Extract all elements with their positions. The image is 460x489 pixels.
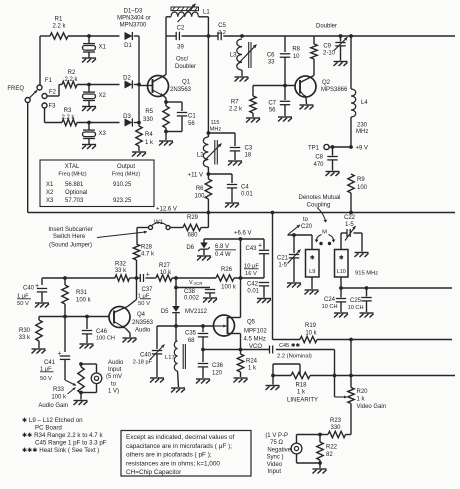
svg-text:4.7 k: 4.7 k xyxy=(141,252,155,258)
svg-text:Q1: Q1 xyxy=(182,80,191,86)
svg-text:F1: F1 xyxy=(45,78,53,84)
svg-text:Audio: Audio xyxy=(135,328,151,334)
svg-text:+9 V: +9 V xyxy=(356,146,369,152)
svg-text:L9: L9 xyxy=(309,269,315,275)
svg-text:2.2 k: 2.2 k xyxy=(64,77,78,83)
svg-text:4.5 MHz: 4.5 MHz xyxy=(244,337,266,343)
svg-text:10 CH: 10 CH xyxy=(348,305,364,311)
svg-text:230: 230 xyxy=(357,123,368,129)
svg-text:C37: C37 xyxy=(141,287,153,293)
svg-text:MPS3866: MPS3866 xyxy=(321,87,348,93)
svg-text:C7: C7 xyxy=(268,101,276,107)
svg-text:1 k: 1 k xyxy=(145,140,154,146)
svg-text:others are in picofarads ( pF: others are in picofarads ( pF ); xyxy=(126,452,212,459)
svg-text:C4: C4 xyxy=(241,185,249,191)
svg-text:MPN3700: MPN3700 xyxy=(120,23,147,29)
svg-text:Sync ): Sync ) xyxy=(266,455,283,461)
svg-text:R23: R23 xyxy=(330,418,342,424)
svg-text:D5: D5 xyxy=(161,309,169,315)
svg-text:+: + xyxy=(258,243,262,250)
svg-text:Doubler: Doubler xyxy=(316,24,337,30)
svg-text:330: 330 xyxy=(143,117,154,123)
svg-text:2.2 (Nominal): 2.2 (Nominal) xyxy=(277,354,312,360)
svg-text:10 CH: 10 CH xyxy=(322,304,338,310)
svg-text:M: M xyxy=(322,230,327,236)
svg-text:100 k: 100 k xyxy=(221,285,237,291)
svg-text:capacitance are in microfarads: capacitance are in microfarads ( μF ); xyxy=(126,443,232,450)
svg-text:C8: C8 xyxy=(315,155,323,161)
svg-text:56.881: 56.881 xyxy=(65,182,84,188)
svg-text:2N3563: 2N3563 xyxy=(132,320,154,326)
svg-text:Negative: Negative xyxy=(267,448,291,454)
svg-text:120: 120 xyxy=(212,371,223,377)
svg-text:+11 V: +11 V xyxy=(188,173,203,179)
svg-text:D3: D3 xyxy=(123,114,131,120)
svg-text:to: to xyxy=(303,217,309,223)
svg-text:Input: Input xyxy=(268,469,282,475)
svg-text:X2: X2 xyxy=(46,190,54,196)
svg-text:R24: R24 xyxy=(246,359,258,365)
svg-text:R31: R31 xyxy=(76,290,88,296)
svg-text:Coupling: Coupling xyxy=(307,203,331,209)
svg-text:+6.6 V: +6.6 V xyxy=(234,231,252,237)
svg-text:R29: R29 xyxy=(187,215,199,221)
svg-text:2-18 pF: 2-18 pF xyxy=(133,360,153,366)
svg-text:FREQ: FREQ xyxy=(7,86,24,92)
svg-text:Q4: Q4 xyxy=(137,312,146,318)
svg-text:LINEARITY: LINEARITY xyxy=(287,398,318,404)
svg-text:R6: R6 xyxy=(196,186,204,192)
svg-text:V: V xyxy=(189,280,193,286)
svg-text:0.01: 0.01 xyxy=(247,289,259,295)
svg-text:(5 mV: (5 mV xyxy=(106,374,122,380)
svg-text:1 k: 1 k xyxy=(297,390,306,396)
svg-text:R19: R19 xyxy=(305,323,317,329)
svg-text:L3: L3 xyxy=(230,53,237,59)
svg-text:R18: R18 xyxy=(295,383,307,389)
svg-text:Except as indicated, decimal v: Except as indicated, decimal values of xyxy=(126,434,235,441)
svg-text:33: 33 xyxy=(268,60,275,66)
svg-text:923.25: 923.25 xyxy=(113,198,132,204)
svg-text:100: 100 xyxy=(357,185,368,191)
svg-text:L4: L4 xyxy=(361,100,368,106)
svg-text:100: 100 xyxy=(194,194,205,200)
svg-text:MPN3404 or: MPN3404 or xyxy=(117,16,151,22)
svg-text:R5: R5 xyxy=(145,109,153,115)
svg-text:R27: R27 xyxy=(159,263,171,269)
svg-text:56: 56 xyxy=(269,108,276,114)
svg-text:Audio Gain: Audio Gain xyxy=(38,403,68,409)
svg-text:VCR: VCR xyxy=(194,281,203,286)
svg-text:915 MHz: 915 MHz xyxy=(355,271,378,277)
svg-text:Optional: Optional xyxy=(65,190,87,196)
svg-text:39: 39 xyxy=(177,45,184,51)
svg-text:to: to xyxy=(111,382,117,388)
svg-text:C20: C20 xyxy=(301,224,313,230)
svg-text:100 CH: 100 CH xyxy=(96,336,115,342)
svg-text:0.4 W: 0.4 W xyxy=(215,252,231,258)
svg-text:Video Gain: Video Gain xyxy=(357,404,387,410)
svg-text:R28: R28 xyxy=(141,245,153,251)
svg-text:Input: Input xyxy=(108,367,122,373)
svg-text:R1: R1 xyxy=(55,17,63,23)
svg-text:C45 Range 1 pF to 3.3 pF: C45 Range 1 pF to 3.3 pF xyxy=(35,440,107,447)
svg-text:X3: X3 xyxy=(46,198,54,204)
svg-text:C41: C41 xyxy=(44,360,56,366)
svg-text:D1: D1 xyxy=(124,43,132,49)
svg-text:C21: C21 xyxy=(277,256,289,262)
svg-text:X1: X1 xyxy=(46,182,54,188)
svg-text:✱✱✱ Heat Sink ( See Text ): ✱✱✱ Heat Sink ( See Text ) xyxy=(22,447,99,454)
svg-text:C9: C9 xyxy=(323,44,331,50)
svg-text:82: 82 xyxy=(326,452,333,458)
svg-text:0.002: 0.002 xyxy=(184,296,200,302)
svg-text:X3: X3 xyxy=(99,131,107,137)
svg-text:(1 V P-P: (1 V P-P xyxy=(265,433,288,439)
svg-text:C38: C38 xyxy=(184,289,196,295)
svg-text:✱ L9 – L12 Etched on: ✱ L9 – L12 Etched on xyxy=(22,417,83,424)
svg-text:C40: C40 xyxy=(23,286,35,292)
svg-text:MHz: MHz xyxy=(210,127,222,133)
svg-text:C36: C36 xyxy=(212,363,224,369)
svg-text:1-5: 1-5 xyxy=(345,222,354,228)
svg-text:R26: R26 xyxy=(221,267,233,273)
svg-text:C42: C42 xyxy=(247,282,259,288)
svg-text:(Sound Jumper): (Sound Jumper) xyxy=(49,243,92,249)
svg-text:L1: L1 xyxy=(203,10,210,16)
svg-text:R2: R2 xyxy=(68,70,76,76)
svg-text:R8: R8 xyxy=(292,47,300,53)
svg-text:C35: C35 xyxy=(185,331,197,337)
svg-text:X1: X1 xyxy=(99,45,107,51)
svg-text:PC Board: PC Board xyxy=(35,425,62,432)
svg-text:10 k: 10 k xyxy=(160,270,172,276)
svg-text:R22: R22 xyxy=(326,445,338,451)
svg-text:18: 18 xyxy=(245,153,252,159)
svg-text:L17: L17 xyxy=(165,355,175,361)
svg-text:resistances are in ohms; k=1,0: resistances are in ohms; k=1,000 xyxy=(126,460,220,467)
svg-text:R30: R30 xyxy=(19,328,31,334)
svg-text:330: 330 xyxy=(330,425,341,431)
svg-text:MHz: MHz xyxy=(356,129,368,135)
svg-text:10: 10 xyxy=(293,54,300,60)
svg-text:Audio: Audio xyxy=(108,360,124,366)
svg-text:R33: R33 xyxy=(53,387,65,393)
svg-text:6.8 V: 6.8 V xyxy=(215,244,229,250)
svg-text:C22: C22 xyxy=(344,215,356,221)
svg-text:C3: C3 xyxy=(245,146,253,152)
svg-text:MV2112: MV2112 xyxy=(185,309,208,315)
svg-text:C6: C6 xyxy=(267,53,275,59)
svg-text:115: 115 xyxy=(211,120,220,126)
svg-text:2.2: 2.2 xyxy=(218,30,226,36)
svg-text:2-10: 2-10 xyxy=(323,51,336,57)
svg-text:50 V: 50 V xyxy=(40,376,52,382)
svg-text:1-5: 1-5 xyxy=(278,263,287,269)
svg-text:56: 56 xyxy=(188,121,195,127)
svg-text:R4: R4 xyxy=(145,132,153,138)
svg-text:L10: L10 xyxy=(337,269,346,275)
svg-text:✱: ✱ xyxy=(310,255,315,262)
svg-text:✱: ✱ xyxy=(339,255,344,262)
svg-text:+: + xyxy=(146,272,150,279)
svg-text:C24: C24 xyxy=(324,297,336,303)
svg-text:16 V: 16 V xyxy=(245,271,257,277)
svg-text:C1: C1 xyxy=(188,114,196,120)
svg-text:F3: F3 xyxy=(49,104,57,110)
svg-text:1 k: 1 k xyxy=(357,397,366,403)
svg-text:2N3563: 2N3563 xyxy=(170,87,192,93)
svg-text:X2: X2 xyxy=(99,93,107,99)
svg-text:Freq (MHz): Freq (MHz) xyxy=(58,172,86,178)
svg-text:R9: R9 xyxy=(357,177,365,183)
svg-text:Q2: Q2 xyxy=(322,80,331,86)
svg-text:Freq (MHz): Freq (MHz) xyxy=(112,172,140,178)
svg-text:+12.6 V: +12.6 V xyxy=(156,207,177,213)
svg-text:F2: F2 xyxy=(49,90,57,96)
svg-text:Switch Here: Switch Here xyxy=(53,234,86,240)
svg-text:C2: C2 xyxy=(177,26,185,32)
svg-text:C46: C46 xyxy=(96,329,108,335)
svg-text:C5: C5 xyxy=(218,23,226,29)
svg-text:C43: C43 xyxy=(245,246,257,252)
svg-text:910.25: 910.25 xyxy=(113,182,132,188)
svg-text:D6: D6 xyxy=(186,245,194,251)
svg-text:100 k: 100 k xyxy=(51,395,67,401)
svg-text:R7: R7 xyxy=(231,100,239,106)
svg-text:Output: Output xyxy=(117,164,135,170)
svg-text:50 V: 50 V xyxy=(138,301,150,307)
svg-text:D2: D2 xyxy=(123,76,131,82)
svg-text:Osc/: Osc/ xyxy=(176,57,189,63)
svg-text:1 k: 1 k xyxy=(248,366,257,372)
svg-text:33 k: 33 k xyxy=(19,335,31,341)
svg-text:33 k: 33 k xyxy=(115,268,127,274)
svg-text:50 V: 50 V xyxy=(17,301,29,307)
svg-text:XTAL: XTAL xyxy=(65,164,80,170)
svg-text:✱✱ R34 Range 2.2 k to 4.7 k: ✱✱ R34 Range 2.2 k to 4.7 k xyxy=(22,432,103,439)
svg-text:100 k: 100 k xyxy=(76,298,92,304)
svg-text:10 k: 10 k xyxy=(305,331,317,337)
svg-text:C40: C40 xyxy=(140,353,152,359)
svg-text:W1: W1 xyxy=(154,220,164,226)
svg-text:470: 470 xyxy=(313,162,324,168)
svg-text:D1–D3: D1–D3 xyxy=(124,9,143,15)
svg-text:R3: R3 xyxy=(64,108,72,114)
svg-text:68: 68 xyxy=(188,338,195,344)
svg-text:1 V): 1 V) xyxy=(108,389,119,395)
svg-text:Doubler: Doubler xyxy=(175,64,196,70)
svg-text:R20: R20 xyxy=(357,389,369,395)
svg-text:C25: C25 xyxy=(350,298,362,304)
svg-text:TP1: TP1 xyxy=(308,146,320,152)
svg-text:Video: Video xyxy=(267,462,283,468)
svg-text:L2: L2 xyxy=(197,153,204,159)
svg-text:680: 680 xyxy=(187,233,198,239)
svg-text:Q5: Q5 xyxy=(247,320,256,326)
svg-text:CH=Chip Capacitor: CH=Chip Capacitor xyxy=(126,469,182,476)
svg-text:0.01: 0.01 xyxy=(241,192,253,198)
svg-text:R32: R32 xyxy=(115,262,127,268)
svg-text:2.2 k: 2.2 k xyxy=(61,115,75,121)
svg-text:Denotes Mutual: Denotes Mutual xyxy=(298,195,340,201)
svg-text:C45 ✱✱: C45 ✱✱ xyxy=(279,342,301,349)
svg-text:Insert Subcarrier: Insert Subcarrier xyxy=(48,227,92,233)
svg-text:2.2 k: 2.2 k xyxy=(52,24,66,30)
svg-text:57.703: 57.703 xyxy=(65,198,84,204)
svg-text:75 Ω: 75 Ω xyxy=(270,440,283,446)
svg-text:MPF102: MPF102 xyxy=(244,329,267,335)
svg-text:2.2 k: 2.2 k xyxy=(229,107,243,113)
